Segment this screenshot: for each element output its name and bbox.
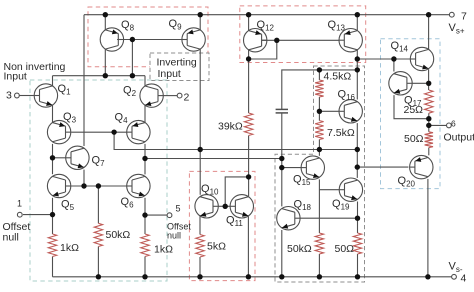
stage box: differential input stage (teal dashed) [30,80,167,281]
value label 4.5k R6 [324,71,352,83]
wire: pin3 to Q1 base [19,95,34,97]
label Offset null pin1 line1 [3,221,31,233]
wire: Q20 collector to V- rail [427,179,429,277]
transistor Q16 [339,100,363,123]
svg-text:1kΩ: 1kΩ [60,242,79,254]
label Non inverting Input line1 [4,61,66,73]
label Offset null pin1 line2 [3,232,19,244]
wire: Q12 emitter to V+ rail [248,15,250,31]
junction: Q13 emitter on V+ rail [355,12,360,17]
resistor R5 39k [244,113,252,136]
label Q13 [328,19,346,33]
svg-text:39kΩ: 39kΩ [218,120,243,132]
pin 5 terminal [167,213,172,218]
label Q17 [404,94,422,108]
resistor R7 7.5k [315,121,323,140]
wire: V- bottom rail to pin 4 [53,276,452,278]
wire: R1 1k top lead [52,215,54,234]
pin 4 terminal V- [452,274,457,279]
wire: Q2 collector drop [144,76,146,86]
label Q5 [61,199,75,213]
wire: Q10 emitter to R4 5k [199,216,201,234]
wire: Q5 emitter down to offset null node [52,198,54,215]
wire: Q16 base lead [319,110,339,112]
junction: 39k bottom node [246,174,251,179]
junction: Q9C/Q10C on bias line [198,147,203,152]
resistor R2 50k (Q7 emitter) [94,223,102,246]
value label 1k R3 [154,244,173,256]
value label 50 ohm R11 [404,133,424,145]
wire: 50k R2 top lead [97,186,99,223]
transistor Q10 [195,195,218,218]
wire: Q1 emitter to Q3 emitter [52,105,54,122]
transistor Q6 [127,174,150,197]
resistor R11 50 ohm (output) [425,132,433,148]
wire: 39k node to Q10/Q11 base rail [225,177,248,206]
wire: Q19 collector up / Q20 base node [356,150,358,178]
wire: Q3 base to Q4 base [71,131,126,133]
wire: Q12 base-collector tie [249,40,277,59]
wire: Q6 collector up to node C [144,159,146,175]
resistor R9 50k (Q15 emitter) [315,233,323,254]
label Q7 [92,155,106,169]
junction: output node [426,123,431,128]
wire: Q12 collector down to R5 39k [248,50,250,113]
label Q19 [332,198,350,212]
label Q6 [121,196,135,210]
svg-text:4.5kΩ: 4.5kΩ [324,71,352,83]
transistor Q14 [410,47,433,70]
wire: node B to Q7 base [53,157,66,159]
pin number 4 [461,273,467,285]
junction: Q9 emitter on V+ rail [198,12,203,17]
wire: R8 25 ohm bottom to output node [428,113,430,132]
svg-text:50Ω: 50Ω [404,133,424,145]
label Vs- pin4 [449,261,463,275]
wire: Q19 base lead [319,189,339,191]
transistor Q19 [339,178,362,201]
label Q14 [391,40,409,54]
transistor Q9 [182,28,206,51]
pin 1 terminal [17,212,22,217]
wire: Q12 base to Q13 base [262,39,339,41]
junction: Q19 emitter tap [355,216,360,221]
wire: Q5 base to Q6 base rail [71,185,127,187]
label Inverting Input line1 [157,57,197,69]
junction: node B Q3C/Q5C/Q7 base [50,155,55,160]
junction: Q14 collector on V+ rail [426,12,431,17]
value label 7.5k R7 [327,127,355,139]
wire: class A node to Q14 base [357,58,410,60]
junction: Q8/Q9 base rail tap [130,37,135,42]
wire: R10 50 ohm bottom lead [357,254,359,277]
wire: Q17 emitter to output node [394,95,429,119]
junction: Q10/Q11 base rail tap [223,204,228,209]
junction: Q12 base tie [274,38,279,43]
wire: Q4 collector down to node C [144,144,146,159]
capacitor C1 (compensation) [276,109,288,113]
label Q11 [226,215,243,229]
junction: cap top / 4.5k top [317,67,322,72]
junction: Q16 emitter / Q19 collector [355,147,360,152]
pin 7 terminal V+ [449,12,454,17]
resistor R6 4.5k [315,80,323,97]
wire: Q14 emitter to 25 ohm node [428,69,430,90]
stage box: class A gain stage (grey dashed L-shape) [275,66,365,282]
wire: Q18 base wire to Q19 emitter [300,217,357,219]
wire: pin2 to Q2 base [163,95,177,97]
wire: Q5 collector up to node B [52,158,54,174]
svg-text:5: 5 [176,204,181,214]
svg-text:Output: Output [444,132,474,144]
wire: Q7 emitter down to Q5/Q6 base rail [83,170,85,186]
svg-text:50Ω: 50Ω [335,243,355,255]
wire: Q8 base to Q9 base [117,39,182,41]
junction: Q12 collector tie [246,56,251,61]
value label 50 ohm R10 [335,243,355,255]
wire: Q6 emitter down [144,198,146,215]
transistor Q20 [410,155,433,178]
value label 25 ohm R8 [404,104,424,116]
label Q4 [115,112,129,126]
pin 2 terminal [177,93,182,98]
label Q9 [169,18,183,32]
transistor Q13 [339,29,363,52]
wire: Q14 collector to V+ rail [428,15,430,50]
label Inverting Input line2 [158,68,181,80]
value label 50k R9 [287,243,312,255]
svg-text:6: 6 [451,119,456,129]
pin number 3 [6,90,12,102]
junction: Q15 base tap [279,165,284,170]
transistor Q18 [277,207,301,230]
junction: node C Q4C/Q6C [142,156,147,161]
wire: Q13 collector down to Q16 collector [356,50,358,100]
pin 3 terminal [15,93,20,98]
svg-text:null: null [3,232,19,244]
wire: R9 50k bottom lead [318,254,320,277]
stage box: output stage (cyan dashed) [381,39,441,189]
svg-text:7: 7 [461,11,467,23]
label Vs+ pin7 [449,22,465,36]
wire: R2 50k bottom lead [97,247,99,277]
junction: R3 1k on V- rail [142,274,147,279]
junction: Q17 collector node [391,56,396,61]
svg-text:5kΩ: 5kΩ [207,240,226,252]
svg-text:50kΩ: 50kΩ [287,243,312,255]
label Non inverting Input line2 [4,71,27,83]
wire: pin5 to Q6 emitter node [145,214,167,216]
label Q15 [293,174,311,188]
label Offset null pin5 line1 [167,222,191,232]
junction: 7.5k bottom / Q15 collector [317,147,322,152]
transistor Q5 [47,174,71,197]
wire: R5 39k bottom to Q11 collector [248,136,250,197]
junction: 25 ohm bottom / Q17 emitter [426,116,431,121]
wire: Q17 base lead [412,82,428,84]
pin number 1 [17,199,22,209]
resistor R10 50 ohm (Q19 emitter) [353,233,361,254]
wire: Q17 collector up to Q14 base node [393,59,395,72]
wire: 4.5k/7.5k junction to Q16 base [318,97,320,121]
wire: Q15 collector up to bias line [318,150,320,156]
wire: Q16 emitter down to bias line [356,123,358,149]
junction: Q16 collector tap [355,67,360,72]
label Q3 [63,111,77,125]
label Q12 [257,19,275,33]
label Q18 [294,199,312,213]
svg-text:null: null [167,231,181,241]
resistor R4 5k (Q10 emitter) [196,235,204,258]
wire: R3 1k bottom lead [144,257,146,277]
transistor Q2 [140,84,163,107]
junction: Q13 collector node [355,56,360,61]
stage box: current mirror Q8/Q9 (red dashed) [88,7,208,67]
transistor Q11 [230,195,254,218]
transistor Q12 [244,29,268,52]
wire: Q18 emitter to V- rail [281,230,283,277]
junction: 50k top node [96,183,101,188]
pin 6 terminal output [447,123,452,128]
wire: R3 1k top lead [144,215,146,234]
svg-text:Inverting: Inverting [157,57,197,69]
pin number 7 [461,11,467,23]
junction: R9 50k on V- rail [317,274,322,279]
label Offset null pin5 line2 [167,231,181,241]
wire: Q15 base lead [282,167,301,169]
wire: Q9 collector down to bias line and Q10 collector [199,49,201,195]
wire: R6 4.5k top lead [318,70,320,80]
wire: Q8 collector down [104,49,106,75]
junction: Q20 collector on V- rail [425,274,430,279]
wire: Q7 collector vertical to V+ rail [83,15,85,146]
junction: pin1 offset node [50,212,55,217]
pin number 6 [451,119,456,129]
svg-text:50kΩ: 50kΩ [106,229,131,241]
wire: Q19 emitter down to R10 50 ohm [357,202,359,234]
resistor R3 1k (Q6 emitter) [141,234,149,257]
svg-text:1kΩ: 1kΩ [154,244,173,256]
label Q20 [398,175,416,189]
label Q1 [58,83,72,97]
wire: pin1 to Q5 emitter node [23,214,53,216]
transistor Q1 [34,84,58,107]
resistor R1 1k (Q5 emitter) [48,234,56,257]
junction: Q7 emitter node [81,183,86,188]
resistor R8 25 ohm [425,90,433,113]
junction: Q18 emitter on V- rail [279,274,284,279]
transistor Q8 [100,28,123,51]
wire: mirror base drop to Q1/Q8 collector node [131,40,133,76]
label Q8 [121,19,135,33]
wire: Q15 emitter down to R9 50k top [318,179,320,233]
wire: Q13 emitter to V+ rail [356,15,358,31]
svg-text:2: 2 [184,92,190,104]
value label 50k R2 [106,229,131,241]
junction: Q8 emitter on V+ rail [103,12,108,17]
pin number 2 [184,92,190,104]
wire: Q10 base to Q11 base [218,205,230,207]
wire: V+ top rail from Q7 collector to pin 7 [84,14,449,16]
stage box: current mirror Q10/Q11 (red dashed) [189,171,255,280]
wire: Q8 emitter to V+ rail [104,15,106,30]
junction: mirror base drop node [130,73,135,78]
wire: node A horizontal Q1C-Q8C-Q2C [53,75,146,77]
value label 5k R4 [207,240,226,252]
wire: cap top lead to 4.5k top node [282,70,358,110]
svg-text:Input: Input [158,68,181,80]
junction: Q14 emitter / Q17 base [426,81,431,86]
junction: Q11 emitter on V- rail [246,274,251,279]
svg-text:4: 4 [461,273,467,285]
transistor Q3 [47,120,71,143]
pin number 5 [176,204,181,214]
value label 39k R5 [218,120,243,132]
junction: R10 on V- rail [355,274,360,279]
label Q16 [338,88,356,102]
svg-text:25Ω: 25Ω [404,104,424,116]
junction: 50k R2 on V- rail [96,274,101,279]
transistor Q15 [301,156,324,179]
label Output [444,132,474,144]
wire: R7 7.5k bottom lead to bias line [318,140,320,150]
wire: Q9 emitter to V+ rail [199,15,201,30]
wire: Q2 emitter to Q4 emitter [144,105,146,122]
callout box: Inverting Input label (grey dashed) [150,53,209,81]
stage box: current mirror Q12/Q13 (red dashed) [240,6,366,63]
junction: Q8 collector node [103,73,108,78]
svg-text:3: 3 [6,90,12,102]
junction: Q20 base tap [355,164,360,169]
wire: Q3 collector down to node B [52,144,54,158]
wire: Q1 collector up [52,76,54,86]
junction: Q12 emitter on V+ rail [246,12,251,17]
junction: cap bottom node [279,156,284,161]
svg-text:7.5kΩ: 7.5kΩ [327,127,355,139]
transistor Q17 [389,72,413,95]
wire: R11 50 ohm bottom to Q20 emitter [428,148,430,156]
wire: Q20 base wire [357,166,408,168]
svg-text:Input: Input [4,71,27,83]
label Q2 [123,85,137,99]
wire: R4 5k bottom lead [199,257,201,277]
wire: Q3/Q4 base node drop and bias line to Q10 collector [114,132,357,149]
wire: node C to compensation cap / Q15 base drop [145,158,282,160]
junction: pin5 offset node [142,212,147,217]
transistor Q7 [66,146,90,169]
wire: Q11 emitter to V- rail [247,216,249,276]
value label 1k R1 [60,242,79,254]
wire: output node to pin 6 [429,124,447,126]
junction: Q16 base node [317,109,322,114]
transistor Q4 [127,120,150,143]
junction: Q3/Q4 base node [111,129,116,134]
label Q10 [201,183,219,197]
svg-text:1: 1 [17,199,22,209]
wire: R1 1k bottom lead to V- rail [52,257,54,277]
wire: cap bottom lead down to Q18 collector [281,113,283,206]
junction: R4 5k on V- rail [197,274,202,279]
